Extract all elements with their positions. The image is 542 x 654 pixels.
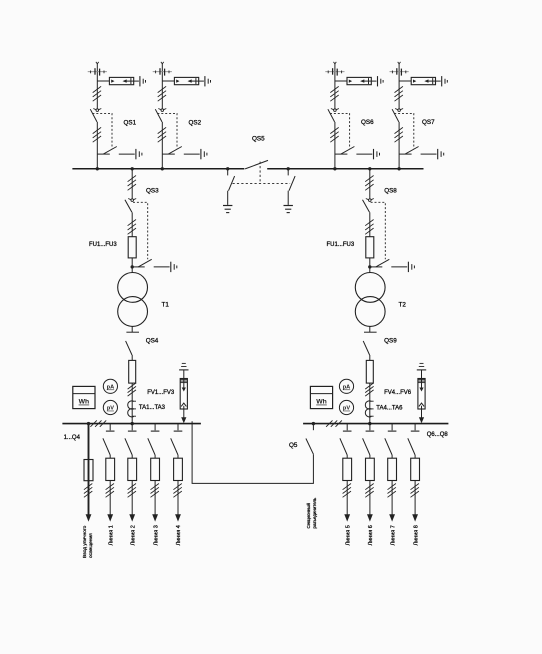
svg-text:Линия 6: Линия 6: [368, 525, 374, 545]
svg-text:Линия 3: Линия 3: [153, 525, 159, 545]
svg-text:QS2: QS2: [189, 120, 202, 127]
svg-text:Линия 1: Линия 1: [108, 525, 114, 545]
svg-text:QS5: QS5: [252, 136, 265, 143]
svg-text:TA1...TA3: TA1...TA3: [139, 405, 166, 411]
svg-text:QS6: QS6: [361, 119, 374, 126]
svg-text:Линия 4: Линия 4: [176, 525, 182, 545]
svg-text:FV1...FV3: FV1...FV3: [147, 390, 175, 396]
svg-text:Линия 5: Линия 5: [345, 525, 351, 545]
svg-text:T1: T1: [162, 301, 170, 308]
svg-text:pA: pA: [343, 385, 350, 391]
svg-text:pV: pV: [343, 406, 350, 412]
svg-text:QS1: QS1: [124, 120, 137, 127]
svg-text:Wh: Wh: [79, 399, 90, 406]
svg-text:QS9: QS9: [384, 338, 397, 345]
svg-text:Q5: Q5: [289, 442, 298, 449]
svg-text:Линия 8: Линия 8: [413, 525, 419, 545]
svg-text:T2: T2: [399, 301, 407, 308]
svg-text:QS4: QS4: [146, 338, 159, 345]
svg-text:1...Q4: 1...Q4: [64, 435, 81, 441]
svg-text:FU1...FU3: FU1...FU3: [327, 242, 355, 248]
svg-text:Секционный: Секционный: [306, 503, 311, 529]
svg-text:разъединитель: разъединитель: [312, 497, 317, 529]
svg-text:QS7: QS7: [422, 119, 435, 126]
svg-text:pV: pV: [107, 406, 114, 412]
svg-text:Ввод уличного: Ввод уличного: [82, 525, 88, 558]
svg-text:FV4...FV6: FV4...FV6: [384, 390, 412, 396]
svg-text:освещения: освещения: [89, 533, 94, 558]
svg-text:Q6...Q8: Q6...Q8: [427, 432, 449, 438]
svg-text:FU1...FU3: FU1...FU3: [89, 242, 117, 248]
svg-text:QS8: QS8: [384, 188, 397, 195]
svg-text:Wh: Wh: [316, 399, 327, 406]
svg-text:TA4...TA6: TA4...TA6: [376, 405, 403, 411]
svg-text:pA: pA: [107, 385, 114, 391]
svg-text:Линия 2: Линия 2: [130, 525, 136, 545]
svg-text:QS3: QS3: [146, 187, 159, 194]
svg-text:Линия 7: Линия 7: [390, 525, 396, 545]
